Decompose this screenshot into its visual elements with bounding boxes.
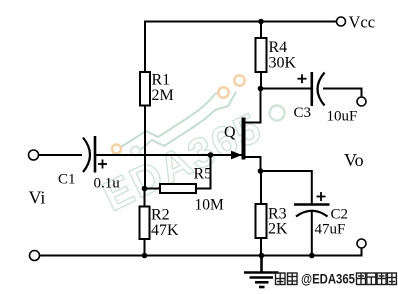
svg-text:R4: R4 — [269, 39, 288, 56]
ground — [244, 256, 279, 288]
wire: C3 to output terminal — [323, 89, 362, 98]
transistor Q gate arrow — [231, 151, 242, 160]
svg-text:Vcc: Vcc — [349, 13, 376, 32]
svg-text:30K: 30K — [269, 55, 297, 72]
svg-text:Q: Q — [224, 124, 236, 141]
wire: R5 right lead — [196, 155, 211, 189]
terminal input bottom — [30, 251, 40, 261]
svg-text:R5: R5 — [194, 166, 213, 183]
capacitor C1 curved plate — [83, 138, 90, 173]
wire: left vertical from rail to R1 — [144, 21, 146, 73]
wire: R3 bottom lead — [260, 238, 262, 256]
capacitor C1 flat plate — [94, 136, 97, 173]
svg-text:C1: C1 — [58, 172, 76, 188]
node: R2 bottom rail junction — [142, 253, 148, 259]
svg-text:47K: 47K — [151, 222, 179, 239]
wire: drain lead to vertical — [246, 88, 261, 123]
node: drain / C3 junction — [258, 86, 264, 92]
svg-text:Vi: Vi — [29, 188, 46, 208]
node: source junction — [258, 168, 264, 174]
svg-text:10M: 10M — [195, 197, 225, 214]
node: junction of R4 with Vcc rail — [258, 19, 264, 25]
wire: bottom rail — [40, 249, 362, 256]
svg-text:@EDA365: @EDA365 — [301, 271, 355, 287]
wire: top Vcc rail — [144, 21, 337, 23]
capacitor C3 curved plate — [318, 73, 325, 106]
svg-text:C2: C2 — [331, 207, 349, 223]
label C3 polarity + — [298, 74, 307, 83]
wire: R2 bottom lead — [144, 239, 146, 256]
node: R5 top junction on gate wire — [208, 152, 214, 158]
wire: source node down to R3 — [260, 171, 262, 204]
svg-text:0.1u: 0.1u — [94, 176, 121, 192]
terminal Vcc — [337, 17, 346, 26]
svg-text:2K: 2K — [268, 221, 288, 238]
wire: R1 bottom to bias node (crosses gate wire, no dot) — [144, 106, 146, 189]
capacitor C2 flat plate — [294, 203, 330, 206]
wire: source node to C2 branch — [261, 171, 312, 204]
svg-text:2M: 2M — [152, 87, 174, 104]
terminal output top — [357, 97, 366, 106]
resistor R2 — [140, 207, 150, 240]
transistor Q (JFET) channel bar — [242, 118, 246, 160]
capacitor C2 curved plate — [296, 211, 328, 217]
resistor R1 — [140, 72, 150, 106]
svg-text:R2: R2 — [151, 207, 170, 224]
svg-text:Vo: Vo — [344, 150, 364, 170]
wire: input to C1 — [39, 154, 83, 156]
label C2 polarity + — [317, 192, 326, 201]
wire: drain node to C3 — [261, 88, 312, 90]
svg-text:C3: C3 — [294, 105, 312, 121]
capacitor C3 flat plate — [310, 72, 313, 106]
svg-text:47uF: 47uF — [315, 222, 346, 238]
resistor R5 — [160, 184, 196, 193]
terminal input top — [29, 150, 39, 160]
wire: C2 bottom lead — [311, 211, 313, 256]
node: bias junction R1/R2/R5 — [142, 186, 148, 192]
label C1 polarity + — [98, 160, 107, 169]
wire: Vcc rail down to R4 — [260, 22, 262, 39]
terminal output bottom — [357, 239, 366, 248]
wire: gate wire from C1 to JFET gate — [95, 154, 242, 156]
wire: R4 bottom to drain node — [260, 72, 262, 89]
svg-text:10uF: 10uF — [327, 109, 358, 125]
node: ground rail junction — [259, 253, 265, 259]
resistor R4 — [256, 38, 267, 72]
svg-text:R1: R1 — [152, 72, 171, 89]
wire: R2 top lead — [144, 189, 146, 207]
node: C2 bottom rail junction — [309, 253, 315, 259]
wire: source lead to vertical — [246, 157, 261, 171]
wire: R5 left lead — [145, 188, 161, 190]
resistor R3 — [256, 204, 267, 238]
